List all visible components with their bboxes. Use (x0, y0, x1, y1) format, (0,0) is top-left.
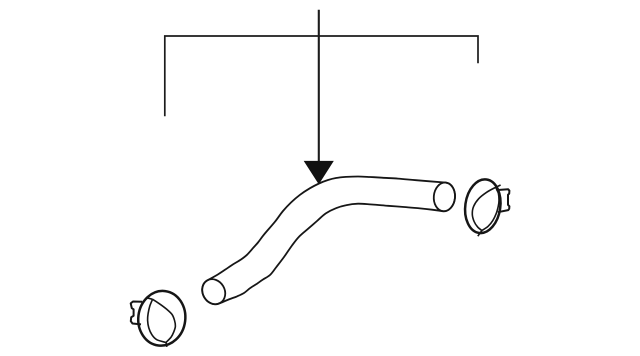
hose right end cap (433, 182, 457, 213)
clamp C1 band edge right arc (153, 299, 176, 342)
hose H1 body (202, 177, 455, 305)
clamp C1 band tip lines (146, 298, 167, 347)
clamp C2 band edge right arc (482, 187, 499, 230)
callout bracket (165, 36, 478, 116)
hose left end cap (198, 275, 230, 309)
clamp C1 band edge left arc (148, 299, 166, 342)
clamp C1 ring (135, 288, 188, 348)
clamp C2 tab (screw housing) (496, 189, 509, 212)
clamp C2 band tip lines (478, 185, 501, 236)
clamp C1 tab (screw housing) (131, 302, 143, 325)
clamp C2 band edge left arc (472, 187, 495, 230)
arrowhead (305, 161, 333, 183)
clamp C2 ring (462, 177, 504, 235)
leader arrow shaft (318, 10, 320, 162)
